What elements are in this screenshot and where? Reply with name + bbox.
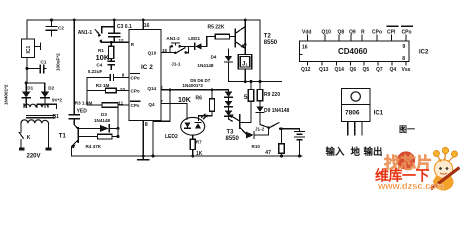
svg-text:1K: 1K bbox=[196, 151, 203, 157]
svg-text:11: 11 bbox=[118, 101, 123, 106]
svg-text:Q6: Q6 bbox=[350, 67, 357, 73]
svg-text:C1: C1 bbox=[41, 60, 47, 65]
svg-text:D1: D1 bbox=[27, 86, 33, 91]
svg-text:9: 9 bbox=[403, 44, 406, 50]
svg-text:地: 地 bbox=[351, 146, 361, 158]
svg-text:输出: 输出 bbox=[364, 146, 383, 158]
svg-text:AN1-1: AN1-1 bbox=[78, 30, 93, 36]
svg-text:8: 8 bbox=[402, 56, 405, 62]
svg-text:T3: T3 bbox=[227, 130, 235, 136]
svg-text:Q4: Q4 bbox=[148, 102, 155, 107]
svg-text:IC1: IC1 bbox=[26, 46, 32, 54]
svg-text:D4: D4 bbox=[211, 55, 217, 60]
svg-text:T2: T2 bbox=[264, 34, 272, 40]
svg-text:9: 9 bbox=[122, 72, 125, 77]
svg-text:K: K bbox=[27, 135, 31, 141]
svg-text:1N4148: 1N4148 bbox=[94, 118, 111, 123]
svg-text:7806: 7806 bbox=[345, 110, 360, 117]
svg-text:T1: T1 bbox=[59, 133, 67, 139]
svg-text:16: 16 bbox=[302, 45, 308, 51]
svg-text:Q4: Q4 bbox=[390, 67, 397, 73]
svg-text:J1-2: J1-2 bbox=[255, 126, 265, 131]
svg-text:输入: 输入 bbox=[326, 146, 346, 158]
svg-text:1N4148: 1N4148 bbox=[197, 63, 214, 68]
svg-text:R6: R6 bbox=[196, 96, 203, 102]
svg-text:R4 47K: R4 47K bbox=[86, 144, 102, 149]
svg-text:10K: 10K bbox=[178, 97, 191, 104]
svg-text:Q10: Q10 bbox=[322, 30, 332, 36]
svg-text:IC 2: IC 2 bbox=[141, 64, 153, 71]
svg-text:8: 8 bbox=[145, 122, 148, 128]
svg-text:D3: D3 bbox=[101, 112, 107, 117]
svg-text:220V: 220V bbox=[27, 154, 41, 160]
svg-text:Vdd: Vdd bbox=[302, 30, 311, 36]
svg-text:100uF*2: 100uF*2 bbox=[56, 53, 61, 71]
svg-text:C2: C2 bbox=[58, 26, 64, 31]
svg-text:J1-1: J1-1 bbox=[171, 61, 181, 66]
svg-text:IC1: IC1 bbox=[374, 111, 384, 117]
svg-text:10: 10 bbox=[120, 87, 126, 92]
svg-text:C4: C4 bbox=[96, 62, 102, 67]
svg-text:B1: B1 bbox=[53, 114, 60, 120]
svg-text:Q12: Q12 bbox=[301, 67, 311, 73]
svg-text:CPo: CPo bbox=[131, 89, 140, 94]
svg-text:IC2: IC2 bbox=[419, 49, 429, 55]
svg-text:Q13: Q13 bbox=[319, 67, 329, 73]
svg-text:Q14: Q14 bbox=[147, 86, 156, 91]
svg-text:R2 1M: R2 1M bbox=[96, 83, 110, 88]
svg-text:R5 22K: R5 22K bbox=[208, 25, 225, 31]
svg-text:CPx: CPx bbox=[131, 103, 140, 108]
svg-text:图一: 图一 bbox=[399, 125, 415, 134]
svg-text:9V*2: 9V*2 bbox=[52, 98, 62, 103]
svg-text:R3 1.5M: R3 1.5M bbox=[75, 100, 93, 105]
svg-text:R10: R10 bbox=[252, 144, 261, 149]
svg-text:Vss: Vss bbox=[402, 67, 411, 73]
svg-text:CPo: CPo bbox=[131, 76, 140, 81]
svg-text:10K: 10K bbox=[96, 53, 110, 62]
svg-text:AN1-2: AN1-2 bbox=[166, 36, 180, 41]
svg-text:D2: D2 bbox=[48, 85, 54, 90]
svg-text:CD4060: CD4060 bbox=[338, 47, 368, 56]
svg-text:0.22uF: 0.22uF bbox=[88, 69, 103, 74]
svg-text:D9 1N4148: D9 1N4148 bbox=[264, 108, 290, 114]
svg-text:www.dzsc.com: www.dzsc.com bbox=[377, 181, 444, 191]
svg-text:Q7: Q7 bbox=[376, 67, 383, 73]
svg-text:8550: 8550 bbox=[226, 136, 240, 142]
svg-text:Q10: Q10 bbox=[148, 50, 157, 55]
svg-text:12: 12 bbox=[119, 38, 125, 43]
svg-text:YED: YED bbox=[77, 108, 88, 114]
svg-text:5: 5 bbox=[244, 94, 248, 101]
svg-text:47: 47 bbox=[265, 150, 271, 156]
svg-text:1N4001*2: 1N4001*2 bbox=[4, 84, 9, 105]
svg-text:1N4001*3: 1N4001*3 bbox=[182, 83, 203, 88]
svg-text:R9 220: R9 220 bbox=[264, 92, 280, 98]
svg-text:Q5: Q5 bbox=[363, 67, 370, 73]
svg-text:R7: R7 bbox=[196, 140, 202, 145]
svg-text:8550: 8550 bbox=[264, 40, 278, 46]
svg-text:Q9: Q9 bbox=[349, 30, 356, 36]
svg-text:J₁: J₁ bbox=[242, 62, 248, 68]
svg-text:LED2: LED2 bbox=[165, 134, 178, 140]
svg-text:LED1: LED1 bbox=[188, 36, 200, 41]
svg-text:Q14: Q14 bbox=[335, 67, 345, 73]
svg-text:16: 16 bbox=[144, 23, 150, 29]
